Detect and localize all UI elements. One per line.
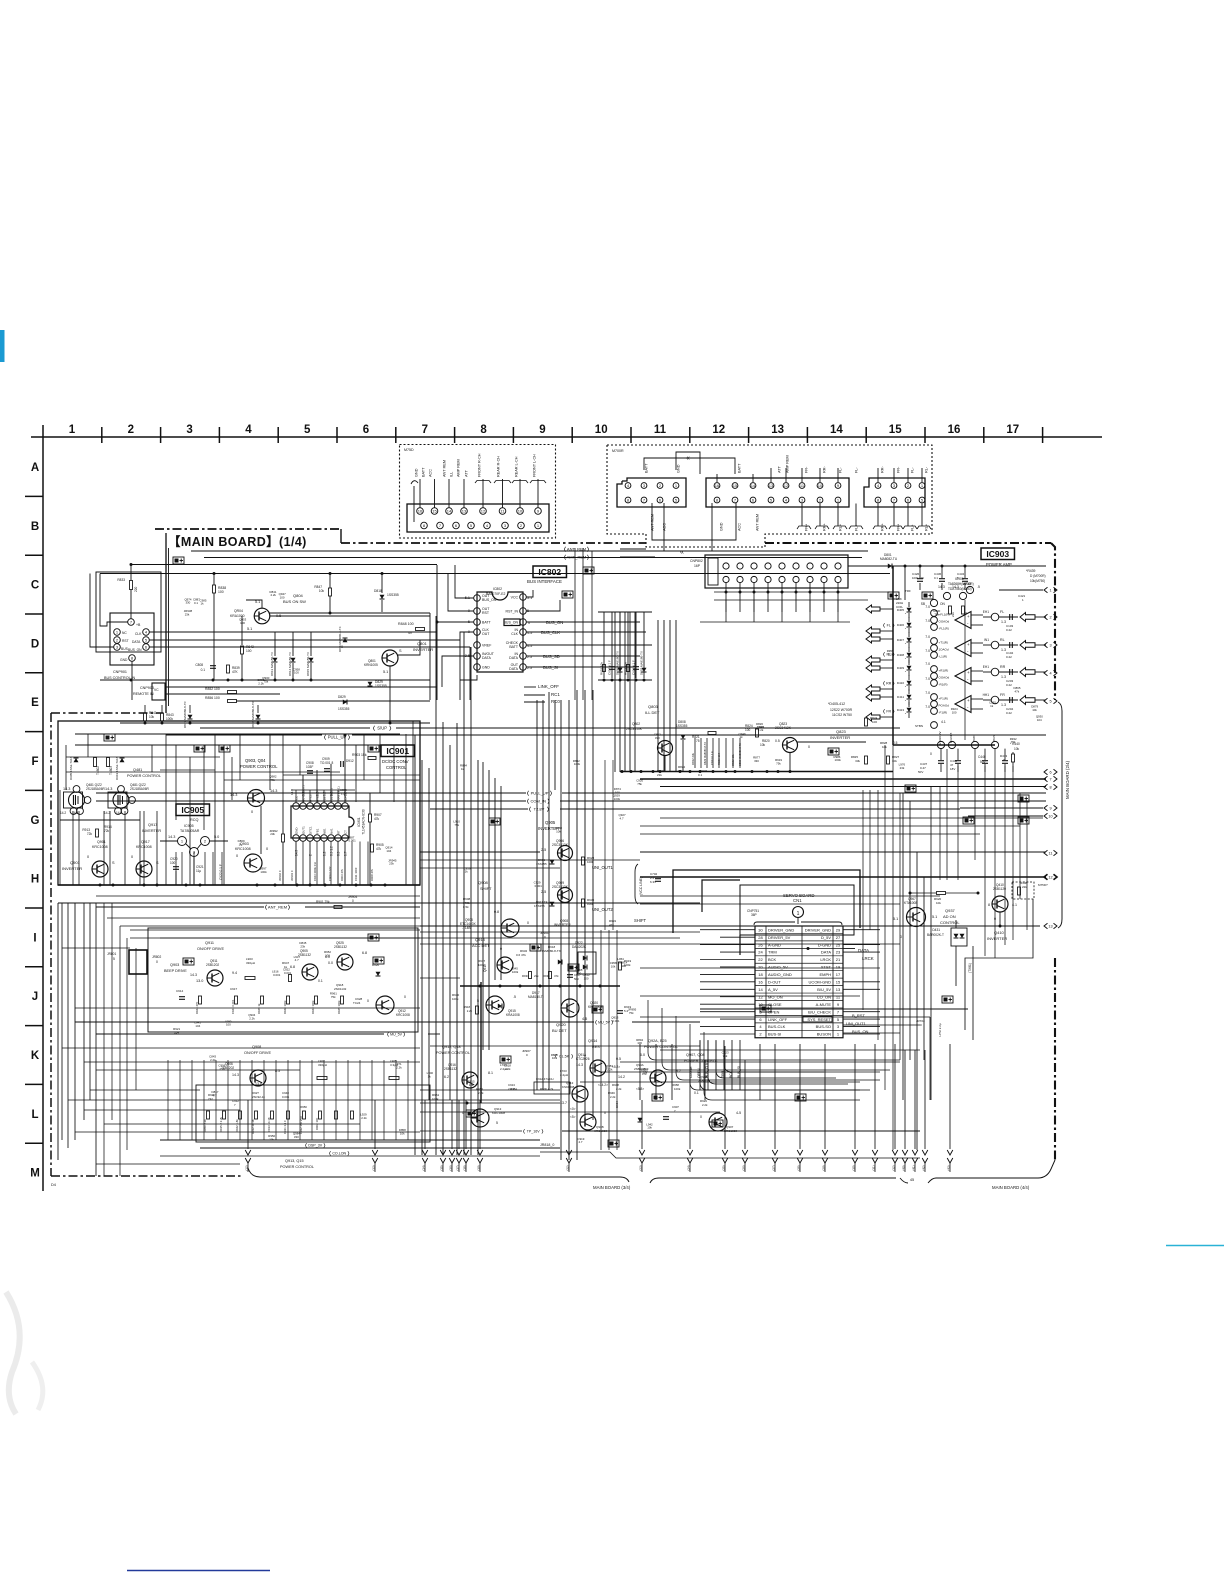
- svg-text:POWER CONTROL: POWER CONTROL: [240, 764, 278, 769]
- svg-text:IC903: IC903: [986, 549, 1009, 559]
- svg-text:INVERTER: INVERTER: [142, 829, 161, 833]
- svg-text:14.3: 14.3: [63, 787, 70, 791]
- svg-text:D (M700R): D (M700R): [1030, 574, 1046, 578]
- svg-text:TP_16V: TP_16V: [527, 1129, 541, 1133]
- svg-text:10k: 10k: [319, 589, 325, 593]
- svg-text:104: 104: [1037, 718, 1042, 722]
- svg-text:BUS-SO: BUS-SO: [816, 1024, 831, 1029]
- svg-text:0: 0: [404, 995, 406, 999]
- svg-text:7.0: 7.0: [925, 605, 930, 609]
- svg-text:12: 12: [784, 483, 789, 488]
- svg-text:LPSI 2.2μ: LPSI 2.2μ: [938, 1023, 942, 1037]
- svg-text:TC24: TC24: [353, 1001, 361, 1005]
- svg-text:11: 11: [1049, 851, 1053, 855]
- svg-text:CO.LON: CO.LON: [332, 1151, 346, 1155]
- svg-text:2.2μH: 2.2μH: [560, 1073, 568, 1077]
- svg-text:2.2k: 2.2k: [467, 1009, 473, 1013]
- svg-text:100: 100: [240, 621, 245, 625]
- svg-text:13: 13: [769, 483, 774, 488]
- svg-text:KRC1008: KRC1008: [92, 845, 108, 849]
- svg-text:M75D: M75D: [404, 448, 414, 452]
- svg-text:CNP802: CNP802: [690, 559, 703, 563]
- svg-text:2.2k: 2.2k: [210, 1058, 216, 1062]
- svg-text:MAIN BOARD (4/4): MAIN BOARD (4/4): [992, 1185, 1030, 1190]
- svg-text:R826 104: R826 104: [717, 752, 721, 765]
- svg-text:<5>: <5>: [570, 1115, 576, 1119]
- svg-text:0.9: 0.9: [337, 851, 341, 856]
- svg-text:RR-: RR-: [823, 466, 827, 473]
- svg-text:AMP_REM: AMP_REM: [567, 555, 587, 560]
- svg-text:❭: ❭: [586, 555, 590, 561]
- svg-text:Q803: Q803: [648, 704, 659, 709]
- svg-text:0: 0: [527, 921, 529, 925]
- svg-text:(30): (30): [852, 1165, 856, 1170]
- svg-text:5.1: 5.1: [247, 627, 252, 631]
- svg-text:100k: 100k: [512, 970, 519, 974]
- svg-text:14.3: 14.3: [168, 835, 175, 839]
- svg-text:JR902 0: JR902 0: [278, 870, 282, 881]
- svg-text:+: +: [967, 614, 970, 619]
- svg-text:Q937: Q937: [945, 908, 956, 913]
- svg-text:VREF: VREF: [482, 644, 491, 648]
- svg-text:5: 5: [1049, 699, 1051, 703]
- svg-text:75k: 75k: [263, 679, 268, 683]
- svg-text:❭: ❭: [586, 547, 590, 553]
- svg-text:+: +: [967, 698, 970, 703]
- svg-text:D431: D431: [932, 928, 940, 932]
- svg-text:R949 1k: R949 1k: [257, 1003, 261, 1014]
- svg-text:12: 12: [758, 994, 763, 999]
- svg-text:R906 4.7k: R906 4.7k: [540, 1087, 554, 1091]
- svg-text:VCC: VCC: [511, 596, 519, 600]
- svg-text:D411: D411: [897, 695, 904, 699]
- svg-text:10: 10: [595, 424, 608, 436]
- svg-text:C909 0.022: C909 0.022: [328, 866, 332, 881]
- svg-text:1k: 1k: [465, 870, 469, 874]
- svg-text:C911 100F: C911 100F: [354, 867, 358, 881]
- svg-text:KRC1008: KRC1008: [396, 1013, 410, 1017]
- svg-text:0: 0: [367, 999, 369, 1003]
- svg-text:4.1: 4.1: [941, 720, 946, 724]
- svg-text:D_5V: D_5V: [821, 935, 831, 940]
- svg-text:100k: 100k: [835, 758, 842, 762]
- svg-text:14: 14: [830, 424, 843, 436]
- svg-text:14.3: 14.3: [230, 793, 237, 797]
- svg-text:2SC3413K: 2SC3413K: [626, 727, 643, 731]
- svg-text:16: 16: [948, 424, 961, 436]
- svg-text:2SJ185A06R: 2SJ185A06R: [130, 787, 149, 791]
- svg-text:104: 104: [386, 849, 391, 853]
- svg-text:❬: ❬: [528, 807, 532, 813]
- svg-text:1: 1: [1049, 588, 1051, 592]
- svg-text:2.2k: 2.2k: [219, 1067, 225, 1071]
- svg-text:DATA: DATA: [482, 656, 491, 660]
- svg-text:Q801: Q801: [417, 641, 428, 646]
- svg-text:330: 330: [294, 1135, 299, 1139]
- svg-text:10k: 10k: [469, 1083, 474, 1087]
- svg-text:0: 0: [156, 960, 158, 964]
- svg-text:(33): (33): [372, 1165, 376, 1170]
- svg-text:Q907, Q08: Q907, Q08: [686, 1053, 705, 1057]
- svg-text:INVERTER: INVERTER: [830, 735, 850, 740]
- svg-text:(35): (35): [440, 1165, 444, 1170]
- svg-text:OUT1: OUT1: [302, 826, 306, 834]
- svg-text:LRCK: LRCK: [820, 957, 831, 962]
- svg-text:D813 MA8150-TX: D813 MA8150-TX: [270, 652, 274, 676]
- svg-text:0.22: 0.22: [1006, 711, 1012, 715]
- svg-text:0: 0: [700, 1115, 702, 1119]
- svg-text:POAOd: POAOd: [939, 704, 950, 708]
- svg-text:45: 45: [910, 1178, 914, 1182]
- svg-text:TAB1: TAB1: [972, 734, 976, 741]
- svg-text:R942 1.8k: R942 1.8k: [235, 1119, 239, 1132]
- svg-text:21: 21: [836, 957, 841, 962]
- svg-text:100: 100: [621, 964, 626, 968]
- svg-text:❬: ❬: [323, 735, 327, 741]
- svg-text:10: 10: [818, 483, 823, 488]
- svg-text:14.3: 14.3: [190, 973, 197, 977]
- svg-text:23k: 23k: [900, 766, 905, 770]
- svg-text:DATA: DATA: [132, 640, 141, 644]
- svg-text:5: 5: [477, 999, 479, 1003]
- svg-text:FR+: FR+: [805, 523, 809, 531]
- svg-text:RT: RT: [337, 830, 341, 834]
- svg-text:ANT REM: ANT REM: [443, 460, 447, 477]
- svg-text:14.2: 14.2: [60, 811, 66, 815]
- svg-text:ON/OFF DRIVE: ON/OFF DRIVE: [197, 947, 224, 951]
- svg-text:-714B: -714B: [462, 926, 471, 930]
- svg-text:1.7: 1.7: [344, 851, 348, 856]
- svg-text:CO_ON: CO_ON: [817, 994, 831, 999]
- svg-text:1k: 1k: [739, 735, 743, 739]
- svg-text:33k: 33k: [855, 759, 860, 763]
- svg-text:-FL1(R): -FL1(R): [939, 627, 949, 631]
- svg-text:❬: ❬: [526, 791, 530, 797]
- svg-text:FB2: FB2: [323, 796, 327, 802]
- svg-text:11μ: 11μ: [196, 869, 201, 873]
- svg-text:EH1: EH1: [983, 665, 989, 669]
- svg-text:POWER AMP: POWER AMP: [986, 562, 1012, 567]
- svg-text:13.0: 13.0: [196, 979, 203, 983]
- svg-text:R933: R933: [522, 974, 529, 978]
- svg-text:0: 0: [352, 899, 354, 903]
- svg-text:14.3: 14.3: [952, 585, 959, 589]
- svg-text:4-5: 4-5: [736, 1111, 741, 1115]
- svg-text:A: A: [31, 462, 39, 474]
- svg-text:RR+: RR+: [823, 523, 827, 531]
- svg-text:100: 100: [226, 1023, 231, 1027]
- svg-text:MA8180-TI: MA8180-TI: [528, 995, 544, 999]
- svg-text:1.2: 1.2: [323, 791, 327, 796]
- svg-text:REAR L-CH: REAR L-CH: [515, 456, 519, 477]
- svg-text:Q920: Q920: [556, 1022, 567, 1027]
- svg-text:2: 2: [309, 854, 313, 856]
- svg-text:FL+: FL+: [911, 524, 915, 531]
- svg-text:5: 5: [304, 424, 311, 436]
- svg-text:❭: ❭: [388, 726, 392, 732]
- svg-text:103F: 103F: [306, 765, 313, 769]
- svg-text:R945 100k: R945 100k: [337, 1000, 341, 1014]
- svg-text:R832 23k: R832 23k: [691, 752, 695, 765]
- svg-text:D409: D409: [897, 666, 905, 670]
- svg-text:R903 47k: R903 47k: [340, 868, 344, 881]
- svg-text:T4803: T4803: [109, 766, 113, 775]
- svg-text:RR-: RR-: [881, 466, 885, 473]
- svg-text:4: 4: [1049, 671, 1051, 675]
- svg-text:2.2k: 2.2k: [888, 652, 894, 656]
- svg-text:BUS_ON: BUS_ON: [128, 648, 142, 652]
- svg-text:0.1: 0.1: [934, 576, 938, 580]
- svg-text:(31): (31): [872, 1165, 876, 1170]
- svg-text:Q908: Q908: [478, 880, 489, 885]
- svg-text:E: E: [31, 697, 39, 709]
- svg-text:8: 8: [480, 424, 487, 436]
- svg-text:CT: CT: [344, 830, 348, 834]
- svg-text:D407: D407: [897, 638, 905, 642]
- svg-text:MU_5V: MU_5V: [390, 1032, 403, 1036]
- svg-text:MA8082-TU: MA8082-TU: [880, 557, 898, 561]
- svg-text:1k: 1k: [990, 704, 994, 708]
- svg-text:D905 1SS2-TA16: D905 1SS2-TA16: [69, 756, 73, 780]
- svg-text:GND: GND: [482, 666, 490, 670]
- svg-text:CONTROL: CONTROL: [940, 920, 960, 925]
- svg-text:4-5: 4-5: [582, 1017, 587, 1021]
- svg-text:(40): (40): [902, 1165, 906, 1170]
- svg-text:JR802: JR802: [152, 955, 161, 959]
- svg-text:SYS_RESET: SYS_RESET: [807, 1017, 831, 1022]
- svg-text:EMPH: EMPH: [819, 972, 831, 977]
- svg-text:RL+: RL+: [925, 523, 929, 531]
- svg-text:KRN1005: KRN1005: [364, 663, 378, 667]
- svg-text:47K: 47K: [232, 670, 239, 674]
- svg-text:1SS355: 1SS355: [676, 724, 688, 728]
- svg-text:+T1(R): +T1(R): [939, 641, 948, 645]
- svg-text:QR04: QR04: [234, 609, 243, 613]
- svg-text:L: L: [31, 1109, 38, 1121]
- svg-text:C617 0.1 F: C617 0.1 F: [608, 660, 612, 675]
- svg-text:ICM01: ICM01: [357, 817, 361, 827]
- svg-text:6: 6: [1049, 770, 1051, 774]
- svg-text:ANT REM: ANT REM: [651, 514, 655, 531]
- svg-text:❭: ❭: [546, 807, 550, 813]
- svg-text:0.001: 0.001: [284, 971, 292, 975]
- svg-text:2SD1132: 2SD1132: [334, 987, 347, 991]
- svg-text:0: 0: [87, 855, 89, 859]
- svg-text:D830 MA8080-8-TX: D830 MA8080-8-TX: [738, 743, 742, 766]
- svg-text:NB1: NB1: [323, 828, 327, 834]
- svg-text:2SB1202: 2SB1202: [206, 963, 219, 967]
- svg-text:0.001: 0.001: [612, 1019, 620, 1023]
- svg-text:FR+: FR+: [897, 523, 901, 531]
- svg-text:C923 3R6k CH: C923 3R6k CH: [313, 862, 317, 881]
- svg-text:0.0: 0.0: [328, 961, 333, 965]
- svg-text:22k: 22k: [1022, 885, 1027, 889]
- svg-text:BATT: BATT: [482, 621, 492, 625]
- svg-text:POWER CONTROL: POWER CONTROL: [280, 1165, 314, 1169]
- svg-text:9.4: 9.4: [232, 971, 237, 975]
- svg-text:BAR002K-T: BAR002K-T: [927, 933, 944, 937]
- svg-text:❬: ❬: [372, 726, 376, 732]
- svg-text:2: 2: [1049, 615, 1051, 619]
- svg-text:(VCC LINE): (VCC LINE): [639, 877, 643, 895]
- svg-text:C914: C914: [176, 989, 184, 993]
- svg-text:5.1: 5.1: [893, 917, 898, 921]
- svg-text:100k: 100k: [452, 997, 459, 1001]
- svg-text:0: 0: [604, 1111, 606, 1115]
- svg-text:1SS355: 1SS355: [536, 862, 547, 866]
- svg-text:6.8: 6.8: [290, 965, 295, 969]
- svg-text:BUS_CLK: BUS_CLK: [541, 630, 560, 635]
- svg-text:2.2k: 2.2k: [505, 1067, 511, 1071]
- svg-text:15: 15: [889, 424, 902, 436]
- svg-text:Q804: Q804: [293, 593, 304, 598]
- svg-text:Q914: Q914: [588, 1039, 597, 1043]
- svg-text:A_5V: A_5V: [768, 987, 778, 992]
- svg-text:7.0: 7.0: [925, 662, 930, 666]
- svg-text:(41): (41): [912, 1165, 916, 1170]
- svg-text:7: 7: [422, 424, 428, 436]
- svg-text:0.5: 0.5: [775, 739, 780, 743]
- svg-text:B/U_CHECK: B/U_CHECK: [808, 1009, 831, 1014]
- svg-text:23k: 23k: [185, 612, 190, 616]
- svg-text:BUS_SD: BUS_SD: [543, 654, 560, 659]
- svg-text:14.3: 14.3: [270, 789, 277, 793]
- svg-text:BUS ON SW: BUS ON SW: [283, 599, 306, 604]
- svg-text:(28): (28): [797, 1165, 801, 1170]
- svg-text:KRA1008: KRA1008: [506, 1013, 520, 1017]
- svg-text:16P: 16P: [694, 564, 701, 568]
- svg-text:BUS: BUS: [992, 735, 996, 741]
- svg-text:100: 100: [280, 595, 285, 599]
- svg-text:50V: 50V: [918, 770, 923, 774]
- svg-text:17: 17: [836, 972, 841, 977]
- svg-text:BUS_ON: BUS_ON: [482, 598, 497, 602]
- svg-text:MAIN BOARD (3/4): MAIN BOARD (3/4): [593, 1185, 631, 1190]
- svg-text:7: 7: [1049, 777, 1051, 781]
- svg-text:RCQ: RCQ: [190, 818, 198, 822]
- svg-text:3: 3: [1049, 643, 1051, 647]
- svg-text:B: B: [31, 521, 39, 533]
- svg-text:Q903: Q903: [170, 963, 179, 967]
- svg-text:8.1: 8.1: [488, 1071, 493, 1075]
- svg-text:FRONT R-CH: FRONT R-CH: [478, 453, 482, 477]
- svg-text:2.2k: 2.2k: [610, 1095, 616, 1099]
- svg-text:BUS-SI: BUS-SI: [768, 1032, 781, 1037]
- svg-text:23k: 23k: [657, 773, 662, 777]
- svg-text:SHIFT: SHIFT: [480, 886, 492, 891]
- svg-text:7.0: 7.0: [925, 705, 930, 709]
- svg-text:Q917: Q917: [148, 823, 157, 827]
- svg-text:7.0: 7.0: [925, 649, 930, 653]
- svg-text:BEEP DRIVE: BEEP DRIVE: [164, 969, 187, 973]
- svg-text:2.2k: 2.2k: [361, 1116, 367, 1120]
- svg-text:JR903 0: JR903 0: [290, 870, 294, 881]
- svg-text:Q823: Q823: [836, 729, 847, 734]
- svg-text:IC905: IC905: [181, 805, 204, 815]
- svg-text:0.1: 0.1: [194, 601, 198, 605]
- svg-text:CLOSE: CLOSE: [768, 1002, 782, 1007]
- svg-text:❭: ❭: [546, 799, 550, 805]
- svg-text:MAIN BOARD (2/4): MAIN BOARD (2/4): [1065, 760, 1070, 799]
- svg-text:100: 100: [584, 976, 589, 980]
- svg-text:HH1: HH1: [983, 693, 990, 697]
- svg-text:STBN: STBN: [915, 724, 923, 728]
- svg-text:KRC1008: KRC1008: [235, 847, 251, 851]
- svg-text:+: +: [967, 670, 970, 675]
- svg-text:❭: ❭: [549, 791, 553, 797]
- svg-text:1k: 1k: [461, 767, 465, 771]
- svg-text:FR-: FR-: [805, 466, 809, 473]
- svg-text:1OAOd: 1OAOd: [939, 648, 949, 652]
- svg-text:-L1(R): -L1(R): [939, 655, 948, 659]
- svg-text:14.2: 14.2: [104, 811, 110, 815]
- svg-text:(TX81): (TX81): [968, 963, 972, 973]
- svg-text:6.8: 6.8: [362, 951, 367, 955]
- svg-text:Q905: Q905: [545, 820, 556, 825]
- svg-text:BUS_ON: BUS_ON: [546, 620, 563, 625]
- svg-text:2.2k: 2.2k: [478, 1091, 484, 1095]
- svg-text:INVERTER: INVERTER: [987, 936, 1007, 941]
- svg-text:B/U_5V: B/U_5V: [817, 987, 831, 992]
- svg-text:C808: C808: [195, 663, 203, 667]
- svg-text:KTA1008: KTA1008: [904, 901, 917, 905]
- svg-text:FL-: FL-: [911, 467, 915, 473]
- svg-text:0.001: 0.001: [757, 725, 765, 729]
- svg-text:R848 100: R848 100: [398, 622, 414, 626]
- svg-text:CN1: CN1: [793, 898, 802, 903]
- svg-text:13: 13: [771, 424, 784, 436]
- svg-text:Q901: Q901: [97, 840, 106, 844]
- svg-text:4V: 4V: [408, 631, 413, 635]
- svg-text:R833: R833: [117, 578, 125, 582]
- svg-text:2.5: 2.5: [541, 890, 546, 894]
- svg-text:NA1: NA1: [330, 828, 334, 834]
- svg-text:0.001: 0.001: [273, 973, 281, 977]
- svg-text:0: 0: [266, 847, 268, 851]
- svg-text:2.2k: 2.2k: [702, 1103, 708, 1107]
- svg-text:BUSON: BUSON: [817, 1032, 831, 1037]
- svg-text:10k: 10k: [643, 1070, 648, 1074]
- svg-text:J: J: [32, 991, 38, 1003]
- svg-text:0.1: 0.1: [698, 773, 703, 777]
- svg-text:LINK_OFF: LINK_OFF: [768, 1017, 788, 1022]
- svg-text:D808 MA8180-TX: D808 MA8180-TX: [616, 651, 620, 675]
- svg-text:0.22: 0.22: [1006, 628, 1012, 632]
- svg-text:10k: 10k: [611, 964, 616, 968]
- svg-text:8: 8: [988, 903, 990, 907]
- svg-text:100: 100: [952, 710, 957, 714]
- svg-text:0.9 1.2: 0.9 1.2: [330, 846, 334, 856]
- svg-text:12: 12: [712, 424, 725, 436]
- svg-text:RL+: RL+: [839, 523, 843, 531]
- svg-text:«: «: [686, 455, 690, 462]
- svg-text:Q903, Q04: Q903, Q04: [245, 758, 266, 763]
- svg-text:75: 75: [696, 739, 700, 743]
- svg-text:15: 15: [836, 980, 841, 985]
- svg-text:0: 0: [251, 810, 253, 814]
- svg-text:ON/OFF DRIVE: ON/OFF DRIVE: [244, 1051, 271, 1055]
- svg-text:6: 6: [363, 424, 369, 436]
- svg-text:RST: RST: [482, 611, 490, 615]
- svg-text:1SS355: 1SS355: [375, 684, 387, 688]
- svg-text:C941 0.001: C941 0.001: [231, 999, 235, 1014]
- svg-text:C922 0.1 F: C922 0.1 F: [219, 864, 223, 880]
- svg-text:D: D: [31, 638, 39, 650]
- svg-text:12: 12: [1048, 875, 1052, 879]
- svg-text:14.2: 14.2: [618, 1075, 625, 1079]
- svg-text:10k: 10k: [1014, 747, 1020, 751]
- svg-text:75k: 75k: [637, 782, 642, 786]
